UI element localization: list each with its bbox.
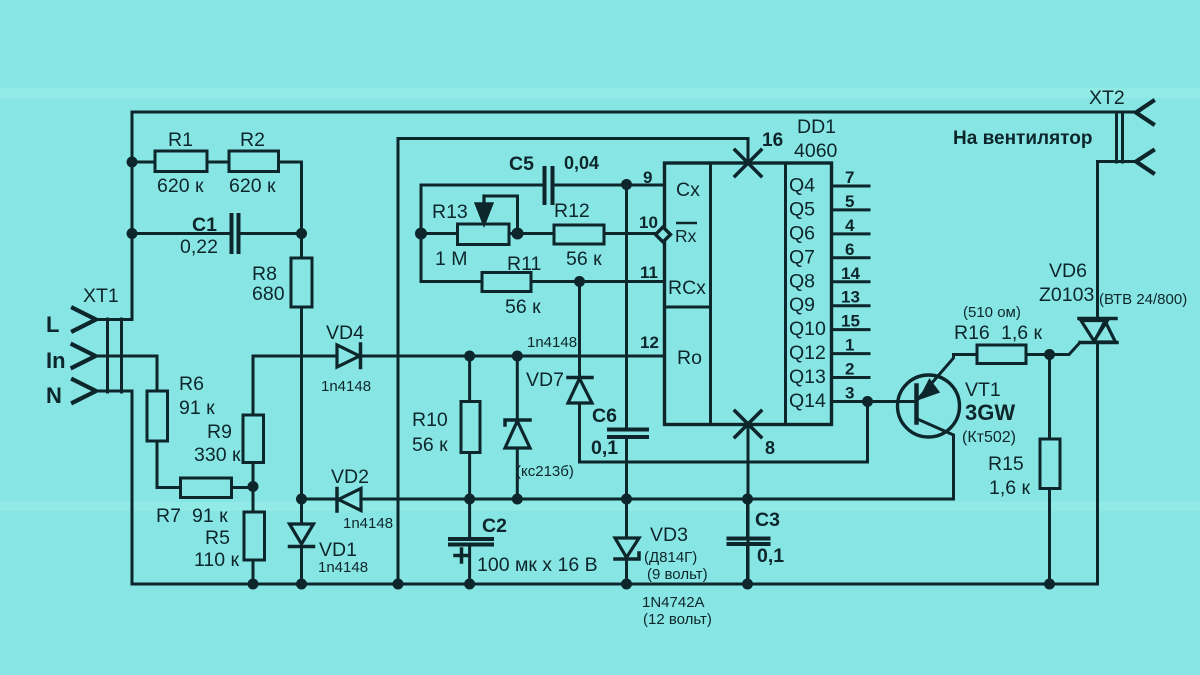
wire R9 top from mid wire (252, 356, 255, 415)
svg-text:10: 10 (639, 213, 658, 232)
svg-text:XT1: XT1 (83, 285, 119, 307)
resistor R15 (1040, 439, 1060, 489)
svg-text:(510 ом): (510 ом) (963, 304, 1021, 321)
wire Q14 pin 3 to VT1 base (832, 400, 917, 403)
resistor R16 (977, 345, 1026, 364)
diode VD4 bar (359, 344, 363, 368)
svg-text:RCx: RCx (668, 277, 706, 299)
svg-text:DD1: DD1 (797, 116, 836, 138)
wire R9 to junction (252, 463, 255, 513)
transistor VT1 collector diagonal down to plus rail (919, 420, 954, 500)
svg-text:620 к: 620 к (157, 175, 204, 197)
svg-text:1n4148: 1n4148 (318, 559, 368, 576)
Rx overline bar (676, 222, 697, 225)
wire C1 right (239, 232, 302, 235)
svg-text:C2: C2 (482, 515, 507, 537)
wire R1 left (132, 161, 155, 164)
capacitor C5 plates (545, 168, 553, 203)
svg-text:4060: 4060 (794, 140, 838, 162)
diode VD7 bar (568, 376, 592, 380)
capacitor C3 top lead (746, 499, 749, 539)
svg-text:9: 9 (643, 168, 652, 187)
resistor R9 (243, 415, 264, 463)
capacitor C2 bottom lead (468, 545, 471, 585)
svg-text:Q6: Q6 (789, 222, 815, 244)
svg-text:Q9: Q9 (789, 294, 815, 316)
pin 16 cross (735, 150, 761, 176)
connector XT2 bottom contact wire (1098, 160, 1137, 163)
svg-text:91 к: 91 к (192, 505, 228, 527)
svg-text:R1: R1 (168, 129, 193, 151)
potentiometer R13 wiper arrow (482, 196, 485, 207)
svg-text:XT2: XT2 (1089, 87, 1125, 109)
wire C1 node to R8 (300, 234, 303, 259)
wire C5 right to pin 9 (553, 184, 665, 187)
resistor R8 (291, 258, 312, 307)
svg-text:1n4148: 1n4148 (343, 515, 393, 532)
svg-text:0,1: 0,1 (757, 545, 784, 567)
diode VD7 triangle (568, 379, 592, 404)
wire triac gate (1050, 343, 1081, 355)
zener VD5 kc213b bottom lead (516, 448, 519, 500)
junction node ground outer loop (393, 579, 404, 590)
diode VD1 bottom lead (300, 547, 303, 585)
svg-text:680: 680 (252, 283, 285, 305)
svg-text:Q5: Q5 (789, 198, 815, 220)
wire pin16 stub (747, 139, 750, 164)
resistor R2 (229, 151, 279, 172)
svg-text:(Д814Г): (Д814Г) (644, 549, 697, 566)
junction node R7 R9 R5 (248, 481, 259, 492)
svg-text:C3: C3 (755, 509, 780, 531)
wire top supply rail (133, 111, 1136, 114)
svg-text:C5: C5 (509, 153, 534, 175)
junction node C1 right (296, 228, 307, 239)
wire left vertical from top rail to XT1 L (131, 112, 134, 320)
resistor R12 (554, 225, 604, 244)
IC DD1 internal divider right (784, 163, 787, 425)
junction node mid wire zener (512, 351, 523, 362)
triac VD6 top bar (1079, 317, 1116, 321)
wire R8 down across mid wire to VD2 node (300, 307, 303, 499)
svg-text:11: 11 (640, 263, 658, 282)
zener VD5 kc213b bar (505, 420, 530, 425)
svg-text:3GW: 3GW (965, 400, 1015, 425)
junction node R13 left (415, 228, 427, 240)
diode VD4 triangle (337, 345, 360, 367)
wire gate node down to R15 (1048, 355, 1051, 440)
junction node plus rail C6 VD3 (621, 494, 632, 505)
connector XT1 body bars (108, 319, 122, 392)
svg-text:1: 1 (845, 336, 854, 355)
wire R13 left (421, 232, 458, 235)
transistor VT1 emitter diagonal with lead up (919, 355, 954, 399)
junction node ground R5 (248, 579, 259, 590)
junction node R16 gate R15 (1044, 349, 1055, 360)
wire triac MT1 down to ground rail (1096, 343, 1099, 585)
svg-text:56 к: 56 к (566, 248, 602, 270)
capacitor C2 plates (450, 539, 492, 545)
diode VD1 triangle (290, 524, 314, 544)
svg-text:Q10: Q10 (789, 318, 826, 340)
svg-text:Q4: Q4 (789, 175, 815, 197)
wire R10 top (468, 356, 471, 402)
connector XT1 contact L wire (96, 318, 132, 321)
wire mid 12V line y356 left part (253, 355, 337, 358)
resistor R10 (461, 402, 480, 453)
IC DD1 box (665, 163, 832, 425)
svg-text:VD7: VD7 (526, 369, 564, 391)
wire R13 to R12 (509, 232, 554, 235)
svg-text:0,04: 0,04 (564, 153, 599, 173)
wire R12 right to pin 10 (604, 232, 656, 235)
wire VD7 anode down and right to Q14 node (580, 402, 868, 463)
wire C1 left (132, 232, 232, 235)
svg-text:R6: R6 (179, 373, 204, 395)
svg-text:4: 4 (845, 216, 855, 235)
svg-text:0,22: 0,22 (180, 236, 218, 258)
junction node C1 left (127, 228, 138, 239)
junction node mid wire R10 (464, 351, 475, 362)
svg-text:R16: R16 (954, 322, 990, 344)
svg-text:N: N (46, 383, 62, 408)
svg-text:R2: R2 (240, 129, 265, 151)
svg-text:VD3: VD3 (650, 524, 688, 546)
svg-text:Z0103: Z0103 (1039, 284, 1094, 306)
capacitor C1 plates (232, 215, 239, 252)
svg-text:13: 13 (841, 288, 860, 307)
svg-text:C6: C6 (592, 405, 617, 427)
svg-text:R7: R7 (156, 505, 181, 527)
capacitor C2 top lead (468, 499, 471, 539)
svg-text:330 к: 330 к (194, 444, 241, 466)
resistor R7 (181, 478, 232, 498)
zener VD3 bar (615, 553, 639, 559)
svg-text:1n4148: 1n4148 (527, 334, 577, 351)
wire bottom rail (132, 583, 1097, 586)
connector XT1 arrow L (73, 308, 96, 331)
capacitor C3 plates (729, 539, 769, 545)
svg-text:12: 12 (640, 333, 659, 352)
IC DD1 pin stub Q10 p15 (832, 328, 870, 331)
junction node Q14 pin3 (862, 396, 873, 407)
IC DD1 internal divider left (709, 163, 712, 425)
wire C5 left (421, 184, 545, 187)
svg-text:14: 14 (841, 264, 860, 283)
svg-text:8: 8 (765, 438, 775, 458)
triac VD6 bottom bar (1080, 341, 1117, 345)
svg-text:VD2: VD2 (331, 466, 369, 488)
svg-text:C1: C1 (192, 214, 217, 236)
potentiometer R13 body (458, 224, 510, 245)
resistor R11 (482, 273, 531, 292)
junction node plus rail pin8 C3 (742, 494, 753, 505)
svg-text:Q7: Q7 (789, 246, 815, 268)
wire N down to bottom rail (131, 391, 134, 584)
svg-text:2: 2 (845, 360, 854, 379)
svg-text:R12: R12 (554, 200, 590, 222)
wire R7 to junction (232, 486, 254, 489)
wire R11 right to pin 11 (531, 280, 665, 283)
svg-text:15: 15 (841, 312, 860, 331)
wire R6 bottom corner to R7 (157, 441, 181, 488)
svg-text:Ro: Ro (677, 347, 702, 369)
capacitor C2 plus sign (455, 549, 468, 562)
svg-text:L: L (46, 312, 59, 337)
wire R16 left (954, 353, 978, 356)
svg-text:(Кт502): (Кт502) (962, 429, 1016, 446)
junction node ground C2 (464, 579, 475, 590)
svg-text:R15: R15 (988, 453, 1024, 475)
triac VD6 left triangle (1081, 321, 1108, 342)
junction node plus rail zener (512, 494, 523, 505)
IC DD1 internal divider horizontal (665, 306, 711, 309)
transistor VT1 emitter arrowhead (920, 380, 939, 399)
connector XT1 arrow In (73, 345, 96, 368)
svg-text:1,6 к: 1,6 к (989, 477, 1031, 499)
IC DD1 pin stub Q4 p7 (832, 185, 870, 188)
connector XT1 arrow N (73, 380, 96, 403)
wire mid 12V line y356 right part to pin12 (361, 355, 665, 358)
diode VD1 bar (290, 545, 314, 549)
svg-text:Cx: Cx (676, 179, 700, 201)
transistor VT1 circle (898, 375, 960, 437)
svg-text:5: 5 (845, 192, 854, 211)
svg-text:R5: R5 (205, 527, 230, 549)
diode VD2 triangle (339, 489, 362, 511)
svg-text:Rx: Rx (675, 226, 697, 246)
svg-text:56 к: 56 к (412, 434, 448, 456)
zener VD3 top lead (625, 499, 628, 538)
pin 8 cross (735, 411, 761, 437)
junction node ground R15 (1044, 579, 1055, 590)
junction node plus rail C2 (464, 494, 475, 505)
wire outer loop pin16 to ground (398, 139, 748, 585)
svg-text:6: 6 (845, 240, 854, 259)
svg-text:100 мк х 16 В: 100 мк х 16 В (477, 554, 598, 576)
svg-text:R13: R13 (432, 201, 468, 223)
junction node plus rail VD2 VD1 (296, 494, 307, 505)
svg-text:VD1: VD1 (319, 539, 357, 561)
wire R2 right and down to C1 node (279, 162, 302, 234)
wire R11 left corner (421, 280, 482, 283)
transistor VT1 base bar (914, 386, 919, 423)
wire R1 to R2 (207, 161, 229, 164)
svg-text:In: In (46, 348, 66, 373)
svg-text:620 к: 620 к (229, 175, 276, 197)
connector XT2 body bars (1117, 112, 1123, 162)
IC DD1 pin stub Q12 p1 (832, 352, 870, 355)
IC DD1 pin stub Q8 p14 (832, 280, 870, 283)
svg-text:На вентилятор: На вентилятор (953, 128, 1092, 149)
svg-text:1,6 к: 1,6 к (1001, 322, 1043, 344)
svg-text:Q14: Q14 (789, 390, 826, 412)
wire C6 bottom to plus rail and VD3 (625, 437, 628, 499)
wire VD2 left from R8 node (302, 498, 337, 501)
connector XT1 contact N wire (96, 390, 132, 393)
capacitor C3 bottom lead (746, 544, 749, 584)
wire oscillator box left vertical (420, 185, 423, 282)
junction node R11 VD7 (574, 276, 585, 287)
svg-text:Q13: Q13 (789, 366, 826, 388)
svg-text:56 к: 56 к (505, 296, 541, 318)
diode VD1 top lead (300, 499, 303, 524)
capacitor C6 plates (609, 430, 647, 438)
wire R11 node down to VD7 (578, 282, 581, 379)
wire R16 right to gate node (1026, 353, 1050, 356)
wire plus rail y499 (361, 498, 954, 501)
svg-text:R10: R10 (412, 409, 448, 431)
svg-text:0,1: 0,1 (591, 437, 618, 459)
junction node ground VD3 (621, 579, 632, 590)
zener VD3 triangle (615, 538, 639, 558)
svg-text:Q12: Q12 (789, 342, 826, 364)
zener VD3 bottom lead (625, 559, 628, 584)
svg-text:7: 7 (845, 168, 854, 187)
svg-text:VD4: VD4 (326, 322, 364, 344)
svg-text:91 к: 91 к (179, 397, 215, 419)
wire pin 8 down through C3 node to ground (747, 425, 750, 585)
potentiometer R13 wiper bracket (484, 196, 518, 228)
wire R5 to bottom rail (252, 560, 255, 584)
IC DD1 pin stub Q5 p5 (832, 208, 870, 211)
wire R15 bottom to ground rail (1048, 489, 1051, 585)
svg-text:R9: R9 (207, 421, 232, 443)
zener VD5 kc213b triangle (505, 421, 530, 448)
svg-text:VT1: VT1 (965, 379, 1001, 401)
potentiometer R13 wiper arrowhead (475, 203, 493, 226)
svg-text:16: 16 (762, 130, 783, 151)
junction node ground VD1 (296, 579, 307, 590)
junction node ground C3 (742, 579, 753, 590)
zener VD5 kc213b top lead (516, 356, 519, 420)
svg-text:VD6: VD6 (1049, 260, 1087, 282)
svg-text:110 к: 110 к (194, 549, 240, 571)
svg-text:1N4742A: 1N4742A (642, 594, 705, 611)
svg-text:(ВТВ 24/800): (ВТВ 24/800) (1099, 291, 1187, 308)
svg-text:Q8: Q8 (789, 270, 815, 292)
junction node R1 left (127, 157, 138, 168)
wire triac MT2 up to XT2 (1096, 162, 1099, 319)
svg-text:R11: R11 (507, 253, 541, 275)
connector XT2 top arrow (1136, 101, 1153, 124)
IC DD1 pin stub Q7 p6 (832, 256, 870, 259)
IC DD1 pin stub Q9 p13 (832, 304, 870, 307)
svg-text:R8: R8 (252, 263, 277, 285)
svg-text:(12 вольт): (12 вольт) (643, 611, 712, 628)
diode VD2 bar (335, 489, 339, 512)
wire C5 node down to C6 (625, 185, 628, 430)
resistor R1 (155, 151, 207, 172)
connector XT2 bottom arrow (1136, 151, 1153, 174)
junction node C5 pin9 (621, 179, 632, 190)
svg-text:(кс213б): (кс213б) (516, 463, 574, 480)
pin 10 inversion diamond (656, 227, 671, 242)
connector XT1 contact In wire (96, 355, 158, 358)
resistor R6 vertical with entry from In (156, 356, 159, 391)
svg-text:(9 вольт): (9 вольт) (647, 566, 708, 583)
resistor R5 (244, 512, 265, 560)
junction node R13 wiper (512, 228, 524, 240)
svg-text:1 M: 1 M (435, 248, 468, 270)
IC DD1 pin stub Q6 p4 (832, 232, 870, 235)
IC DD1 pin stub Q13 p2 (832, 376, 870, 379)
svg-text:3: 3 (845, 384, 854, 403)
triac VD6 right triangle (1094, 321, 1116, 342)
wire R10 bottom (468, 453, 471, 500)
svg-text:1n4148: 1n4148 (321, 378, 371, 395)
